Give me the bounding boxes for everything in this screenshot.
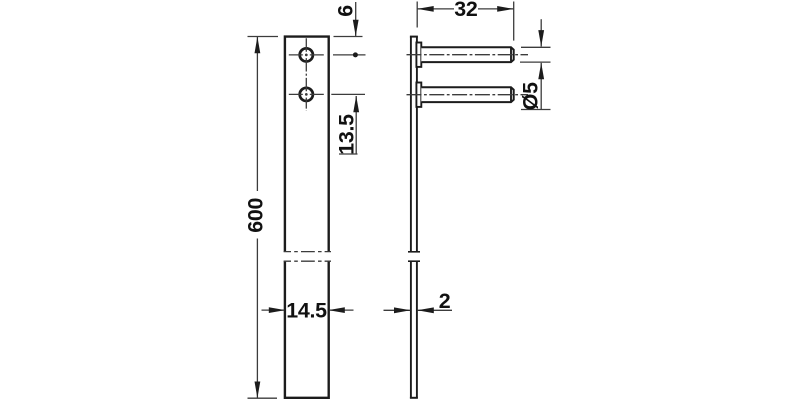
dimension 6: stub extension at bar top edge — [334, 36, 363, 38]
dimension D5: upper leader line — [540, 19, 542, 46]
front view: upper break line (dash-dot) — [284, 251, 331, 253]
svg-text:2: 2 — [439, 289, 451, 313]
pin P2 centerline — [407, 94, 529, 96]
dimension 32: left extension line — [416, 2, 418, 28]
side view: plate lower section right edge — [416, 261, 418, 398]
dimension 14.5: right arrow — [328, 307, 345, 313]
side view: plate lower break cap — [408, 260, 420, 262]
dimension 32: right arrow — [497, 6, 514, 12]
dimension D5: upper down arrow — [538, 30, 544, 46]
dimension 2: right arrow — [417, 307, 434, 313]
dimension 32: right extension line — [513, 2, 515, 41]
dimension 600: dimension line upper segment — [256, 37, 258, 191]
dimension 13.5: stub extension at hole H2 level — [331, 93, 365, 95]
svg-text:600: 600 — [244, 198, 268, 233]
dimension 600: bottom arrow — [255, 382, 261, 399]
svg-text:6: 6 — [333, 5, 357, 17]
dimension 6: terminal dot — [353, 52, 358, 57]
side view: plate upper section right edge — [416, 37, 418, 252]
svg-text:13.5: 13.5 — [335, 114, 359, 155]
vertical centerline through holes — [305, 38, 307, 111]
pin P1 centerline — [407, 54, 529, 56]
dimension 14.5: right tail line — [329, 309, 353, 311]
side view: plate top edge — [410, 36, 418, 38]
dimension 600: dimension line lower segment — [256, 239, 258, 399]
dimension 13.5: dimension line — [355, 96, 357, 154]
dimension 6: stub extension at hole H1 level — [333, 54, 366, 56]
pin P1 shaft outline — [421, 47, 513, 62]
side view: plate upper break cap — [408, 251, 420, 253]
front view: flat bar upper section outline — [285, 37, 329, 252]
dimension 13.5: bottom tick — [339, 153, 358, 155]
pin P1 end chamfer line — [510, 47, 512, 62]
pin P2 shoulder collar — [416, 83, 421, 107]
dimension 600: top arrow — [255, 37, 261, 54]
hole H1 horizontal centerline — [289, 54, 324, 56]
pin P1 shoulder collar — [416, 43, 421, 67]
dimension D5: extension line at pin bottom edge — [520, 61, 551, 63]
side view: plate lower section left edge — [410, 261, 412, 398]
dimension 6: down arrow — [353, 20, 359, 37]
hole H2 horizontal centerline — [289, 93, 324, 95]
dimension 14.5: left tail line — [262, 309, 285, 311]
side view: plate bottom edge — [410, 397, 418, 399]
dimension D5: extension line at pin top edge — [521, 46, 551, 48]
hole H2 center dot — [305, 93, 308, 96]
dimension D5: lower leader line — [540, 63, 542, 110]
svg-text:14.5: 14.5 — [286, 298, 327, 322]
svg-text:Ø5: Ø5 — [518, 82, 542, 110]
front view: lower break line (dash-dot) — [284, 260, 331, 262]
hole H1 center dot — [305, 54, 308, 57]
dimension D5: lower up arrow — [538, 63, 544, 80]
dimension 2: right tail line — [417, 309, 452, 311]
pin P2 shaft outline — [421, 87, 513, 102]
dimension D5: bottom tick — [521, 109, 551, 111]
dimension 600: top extension line — [248, 36, 279, 38]
dimension 32: dimension line left segment — [417, 8, 454, 10]
dimension 6: dimension line — [355, 2, 357, 36]
dimension 600: bottom extension line — [248, 397, 278, 399]
side view: plate upper section left edge — [410, 37, 412, 252]
dimension 14.5: left arrow — [269, 307, 286, 313]
dimension 2: left arrow — [394, 307, 411, 313]
pin P2 end chamfer line — [510, 87, 512, 102]
svg-text:32: 32 — [454, 0, 478, 21]
front view: flat bar lower section outline — [285, 261, 329, 398]
dimension 13.5: up arrow — [353, 96, 359, 113]
dimension 32: left arrow — [417, 6, 434, 12]
hole H2 (lower hole) circle — [300, 88, 313, 101]
dimension 32: dimension line right segment — [478, 8, 514, 10]
dimension 2: left tail line — [384, 309, 411, 311]
hole H1 (upper hole) circle — [300, 48, 313, 61]
